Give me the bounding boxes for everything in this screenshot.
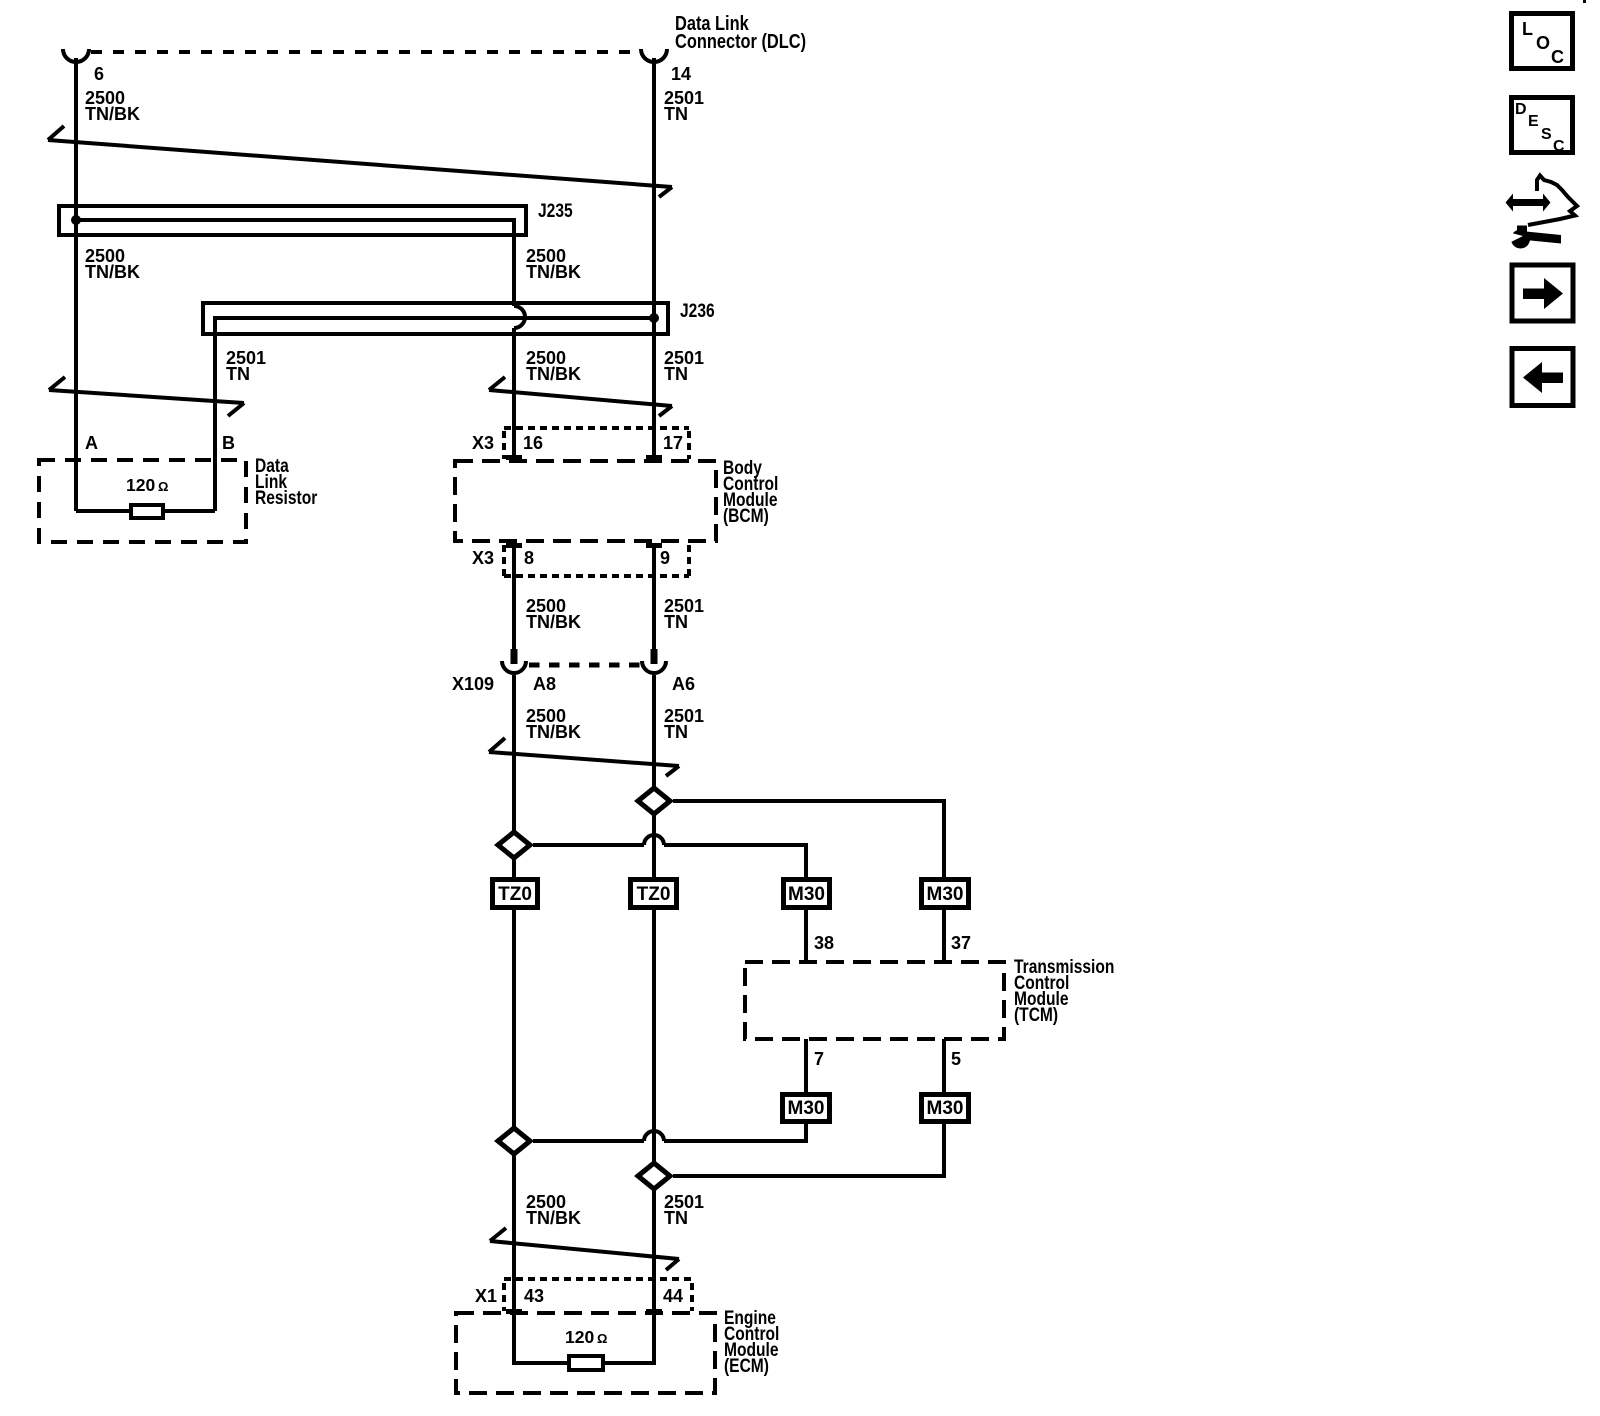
svg-text:Resistor: Resistor [255,487,318,509]
diagnostic tool icon (wrench) [1504,226,1561,249]
svg-text:A: A [85,433,98,453]
off-page arrow (above splices) [489,738,679,776]
wire: TZ0 left down to lower diamond [512,910,516,1130]
wire: X109 A6 down to splice diamond [652,675,656,790]
svg-text:B: B [222,433,235,453]
svg-text:TN: TN [664,722,688,742]
BCM name label [723,457,778,527]
wire label 2501 TN (below BCM 9) [664,596,704,632]
svg-text:TN: TN [664,612,688,632]
pin number 6 [94,64,104,84]
wire label 2501 TN (top right) [664,88,704,124]
svg-text:TN/BK: TN/BK [526,722,581,742]
pin number 14 [671,64,691,84]
pin 5 label [951,1049,961,1069]
wire: M30 down to TCM pin 37 [942,910,946,962]
svg-text:16: 16 [523,433,543,453]
splice diamond (2501 upper) [638,788,670,814]
pin A8 label [533,674,556,694]
wire label 2500 TN/BK (below BCM 8) [526,596,581,632]
wire: splice to right branch (2501) [673,801,944,877]
Transmission Control Module dashed box [745,962,1004,1039]
splice diamond (2500 lower) [498,1128,530,1154]
svg-text:M30: M30 [927,884,964,905]
pin 37 label [951,933,971,953]
off-page arrow (above ECM) [490,1228,679,1270]
svg-text:L: L [1522,19,1533,39]
pin 9 label [660,548,670,568]
svg-text:S: S [1541,126,1552,143]
harness takeout M30 (lower right) [922,1095,969,1122]
svg-text:TN/BK: TN/BK [85,262,140,282]
svg-text:(BCM): (BCM) [723,505,769,527]
node A label [85,433,98,453]
DLC dashed outline [91,50,640,54]
svg-text:X1: X1 [475,1286,497,1306]
svg-text:J236: J236 [680,300,715,322]
splice diamond (2501 lower) [638,1163,670,1189]
harness takeout M30 (lower left) [783,1095,830,1122]
harness takeout TZ0 (center) [631,880,677,908]
pin A6 label [672,674,695,694]
ECM name label [724,1307,779,1377]
diagnostic tool icon (double arrow) [1506,194,1551,212]
wire label 2500 TN/BK (above ECM) [526,1192,581,1228]
wire label 2500 TN/BK (above BCM 16) [526,348,581,384]
svg-text:8: 8 [524,548,534,568]
forward arrow button [1512,265,1573,321]
svg-text:TZ0: TZ0 [498,884,532,905]
wire: J235 splice down to BCM pin 16 [512,328,516,455]
wire label 2500 TN/BK (below J235 left) [85,246,140,282]
svg-text:TN: TN [226,364,250,384]
DESC icon button [1512,98,1573,156]
wire: M30 down to TCM pin 38 [804,910,808,962]
pin 43 terminal bar [506,1309,522,1314]
svg-text:120: 120 [126,475,155,495]
off-page arrow (left, above resistor) [49,377,244,416]
wire: X109 A8 down to splice diamond [512,675,516,834]
wire: diamond to TZ0 (2500) [512,856,516,877]
svg-text:D: D [1515,101,1527,118]
svg-text:44: 44 [663,1286,683,1306]
wire label 2500 TN/BK (top left) [85,88,140,124]
svg-text:TN/BK: TN/BK [85,104,140,124]
splice diamond (2500 upper) [498,832,530,858]
connector label X3 (bottom) [472,548,494,568]
svg-text:E: E [1528,113,1539,130]
X109 pin A8 male terminal [511,649,518,664]
pin 38 label [814,933,834,953]
wire: DLC pin 14 down to BCM pin 17 [652,58,656,455]
splice pack J236 [203,300,715,334]
svg-text:TN: TN [664,104,688,124]
pin 17 terminal bar [646,455,662,460]
svg-text:A6: A6 [672,674,695,694]
wire label 2501 TN (above BCM 17) [664,348,704,384]
wire label 2500 TN/BK (below X109) [526,706,581,742]
X109 pin A6 male terminal [651,649,658,664]
wire: lower diamond down to ECM pin 43 [512,1152,516,1365]
splice bus inside J236 [215,313,659,511]
back arrow button [1512,349,1573,406]
splice pack J235 [59,200,573,235]
pin 7 label [814,1049,824,1069]
harness takeout M30 (upper left) [784,880,830,908]
svg-text:M30: M30 [788,884,825,905]
corner artifact mark [1583,0,1586,3]
svg-text:A8: A8 [533,674,556,694]
svg-text:M30: M30 [788,1098,825,1119]
resistor R (ECM internal) [514,1356,654,1370]
svg-text:(ECM): (ECM) [724,1355,769,1377]
ECM connector X1 row [504,1279,692,1311]
svg-text:TN/BK: TN/BK [526,262,581,282]
connector label X1 [475,1286,497,1306]
svg-text:X3: X3 [472,433,494,453]
value label 120 ohm [126,475,168,495]
in-line connector X109 dashed link [529,663,643,668]
svg-text:6: 6 [94,64,104,84]
svg-text:TN: TN [664,1208,688,1228]
X109 pin A6 female socket [642,661,666,673]
TCM name label [1014,956,1114,1026]
svg-text:120: 120 [565,1327,594,1347]
wire: BCM pin 8 down to X109 [512,545,516,664]
pin 8 terminal bar [506,543,522,548]
pin 44 terminal bar [646,1309,662,1314]
svg-text:Connector (DLC): Connector (DLC) [675,29,806,52]
svg-text:43: 43 [524,1286,544,1306]
node B label [222,433,235,453]
wire: lower diamond down to ECM pin 44 [652,1187,656,1365]
svg-text:(TCM): (TCM) [1014,1004,1058,1026]
svg-text:TN/BK: TN/BK [526,364,581,384]
wire label 2501 TN (above ECM) [664,1192,704,1228]
svg-text:TN/BK: TN/BK [526,612,581,632]
pin 16 label [523,433,543,453]
splice bus inside J235 [71,215,514,306]
wire label 2500 TN/BK (below J235 right) [526,246,581,282]
harness takeout M30 (upper right) [922,880,969,908]
BCM connector X3 top row [504,428,689,459]
Body Control Module dashed box [455,461,716,541]
wire: splice to right branch (2500) with hop [533,835,806,877]
svg-text:9: 9 [660,548,670,568]
X109 pin A8 female socket [502,661,526,673]
diagnostic tool icon (outline shape) [1528,176,1577,226]
pin 43 label [524,1286,544,1306]
svg-text:C: C [1551,47,1564,67]
svg-text:17: 17 [663,433,683,453]
pin 44 label [663,1286,683,1306]
Engine Control Module dashed box [456,1313,715,1393]
svg-text:X3: X3 [472,548,494,568]
svg-text:38: 38 [814,933,834,953]
wire: DLC pin 6 down to resistor A [74,58,78,511]
svg-text:C: C [1553,138,1565,155]
svg-text:J235: J235 [538,200,573,222]
wire label 2501 TN (below X109) [664,706,704,742]
resistor R (data link resistor) [76,505,215,518]
connector label X109 [452,674,494,694]
Data Link Resistor dashed box [39,455,318,542]
svg-text:O: O [1536,33,1550,53]
Data Link Connector (DLC) label [675,11,806,52]
BCM connector X3 bottom row [504,545,689,576]
value label 120 ohm (ECM) [565,1327,607,1347]
svg-text:M30: M30 [927,1098,964,1119]
pin 16 terminal bar [506,455,522,460]
svg-text:5: 5 [951,1049,961,1069]
LOC icon button [1512,14,1573,69]
pin 9 terminal bar [646,543,662,548]
off-page arrow (above BCM) [489,377,672,416]
svg-text:14: 14 [671,64,691,84]
wire: diamond to TZ0 (2501) [652,812,656,877]
svg-text:TN: TN [664,364,688,384]
wire: TCM pin 5 down to M30 [942,1039,946,1092]
svg-text:TZ0: TZ0 [637,884,671,905]
svg-text:Ω: Ω [597,1331,607,1346]
DLC pin 14 terminal [641,49,667,62]
wire: M30 to lower-left diamond with hop [533,1124,806,1141]
wire hop over J236 bus [514,306,525,328]
pin 17 label [663,433,683,453]
svg-text:37: 37 [951,933,971,953]
off-page arrow (top) [48,126,672,197]
svg-text:7: 7 [814,1049,824,1069]
harness takeout TZ0 (left) [493,880,538,908]
wire: M30 to lower-center diamond [673,1124,944,1176]
svg-text:X109: X109 [452,674,494,694]
svg-text:Ω: Ω [158,479,168,494]
svg-text:TN/BK: TN/BK [526,1208,581,1228]
wire label 2501 TN (below J236 left) [226,348,266,384]
wire: BCM pin 9 down to X109 [652,545,656,664]
connector label X3 (top) [472,433,494,453]
pin 8 label [524,548,534,568]
DLC pin 6 terminal [63,49,89,62]
wire: TCM pin 7 down to M30 [804,1039,808,1092]
wire: TZ0 center down to lower diamond [652,910,656,1165]
